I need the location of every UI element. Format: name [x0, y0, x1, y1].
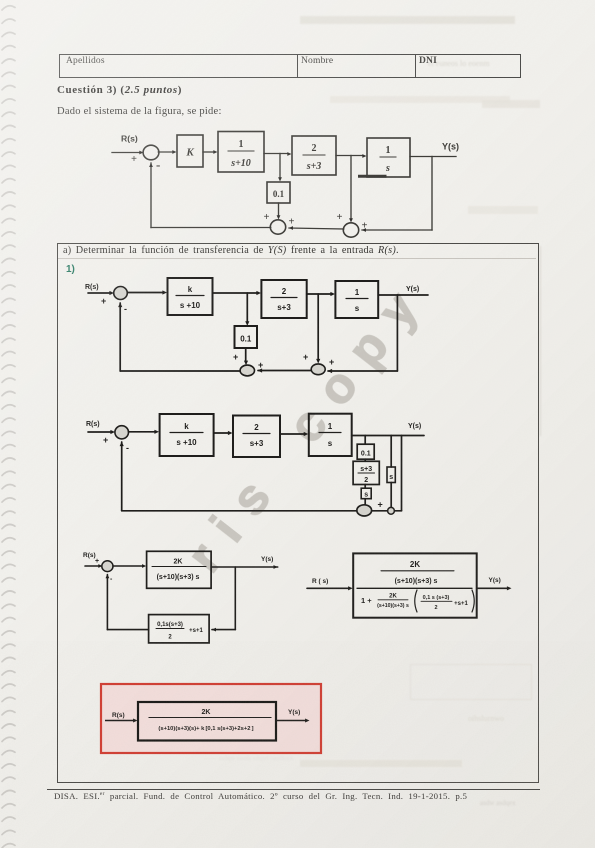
wire (s+3)/2 to block s (hand diagram 2)	[364, 485, 366, 489]
wire sum to forward block (hand diagram 3)	[113, 565, 144, 567]
wire input to sum S1 (hand diagram 1)	[88, 292, 111, 294]
wire node down to 0.1 block (hand diagram 1)	[246, 293, 248, 323]
wire input arrow (red box diagram)	[105, 720, 134, 722]
block s (hand diagram 2)	[361, 488, 371, 499]
summing junction (hand diagram 3)	[102, 561, 113, 572]
summing junction ellipse (hand diagram 2)	[357, 505, 372, 516]
wire sum feedback left and up to S1 (hand diagram 2)	[122, 510, 357, 512]
wire block3 to Y(s) output (hand diagram 1)	[378, 294, 428, 296]
block 2K/((s+10)(s+3)s) (hand diagram 3)	[147, 551, 212, 588]
wire node down to summing junction S3	[350, 156, 352, 220]
block K/(s+10) (hand diagram 2)	[160, 414, 214, 456]
wire block s down to sum (hand diagram 2)	[364, 499, 366, 505]
wire S1 to block K/(s+10) (hand diagram 1)	[127, 292, 164, 294]
feedback block 0.1s(s+3)/2+s+1 (hand diagram 3)	[149, 615, 210, 643]
wire block3 to output with three taps (hand diagram 2)	[352, 435, 424, 437]
block 2/(s+3) (hand diagram 1)	[261, 280, 306, 318]
block K (printed)	[177, 135, 203, 167]
summing junction S1 (hand diagram 1)	[114, 287, 128, 300]
summing junction S2 (printed)	[270, 220, 285, 234]
wire node circle to sum ellipse (hand diagram 2)	[372, 510, 388, 512]
header table	[59, 54, 521, 78]
wire tall block s down to small node circle (hand diagram 2)	[390, 483, 392, 508]
wire input arrow (hand diagram 4)	[307, 587, 349, 589]
wire 0.1 to block (s+3)/2 (hand diagram 2)	[364, 459, 366, 461]
block 1/s (hand diagram 1)	[335, 281, 378, 318]
block (s+3)/2 (hand diagram 2)	[353, 461, 379, 484]
wire G3 to Y(s) output, node branch at x=432	[410, 156, 456, 158]
wire block2 to block3 with node branch (hand diagram 1)	[307, 293, 332, 295]
wire R(s) input to summing junction	[112, 152, 140, 154]
green numbering 1)	[66, 264, 75, 275]
wire rightmost tap down and left into node circle (hand diagram 2)	[401, 436, 403, 511]
summing junction S1 (hand diagram 2)	[115, 426, 129, 439]
wire input to sum (hand diagram 3)	[85, 565, 100, 567]
wire tap down to 0.1 block (hand diagram 2)	[364, 436, 366, 445]
wire block2 to block3 (hand diagram 2)	[280, 433, 305, 435]
heading Cuestion 3	[57, 84, 182, 96]
wire S3 to S2 (hand diagram 1)	[258, 370, 311, 372]
block 2/(s+3) (hand diagram 2)	[233, 416, 280, 458]
wire feedback block left and up to sum (hand diagram 3)	[107, 629, 148, 631]
wire S2 feedback left and up into S1 minus input	[151, 227, 271, 229]
tall block s (hand diagram 2)	[387, 467, 395, 483]
wire output arrow (red box diagram)	[276, 720, 306, 722]
big answer box	[57, 243, 539, 783]
wire S1 to block K	[158, 151, 173, 153]
wire block to Y(s) output with node (hand diagram 3)	[211, 566, 278, 568]
summing junction S1 (printed)	[143, 145, 159, 160]
block closed-loop transfer function (hand diagram 4)	[353, 553, 477, 617]
question a) strip	[63, 245, 399, 256]
wire 0.1 down to sum S2 (hand diagram 1)	[245, 348, 247, 362]
block 1/s (hand diagram 2)	[309, 414, 352, 456]
wire block1 to block2 with node branch (hand diagram 1)	[213, 292, 259, 294]
wire node down to block 0.1	[279, 154, 281, 179]
block H1 = 0.1 (printed)	[267, 182, 290, 203]
wire tap down through tall block s (hand diagram 2)	[390, 436, 392, 468]
intro line	[57, 106, 222, 117]
wire input to sum S1 (hand diagram 2)	[88, 431, 112, 433]
wire S1 to block K/(s+10) (hand diagram 2)	[129, 431, 157, 433]
block K/(s+10) (hand diagram 1)	[168, 278, 213, 315]
watermark "ris copy"	[178, 268, 437, 580]
wire Y(s) feedback down into S3 (hand diagram 1)	[396, 295, 398, 371]
block 0.1 (hand diagram 1)	[235, 326, 258, 348]
wire G2 to block 1/s, node branch at x=351	[336, 155, 363, 157]
block G2 = 2/(s+3) (printed)	[292, 136, 336, 175]
wire K to block 1/(s+10)	[203, 151, 214, 153]
footer rule	[47, 789, 540, 790]
wire node down to sum S3 (hand diagram 1)	[317, 294, 319, 360]
wire block1 to block2 (hand diagram 2)	[214, 432, 230, 434]
summing junction S2 (hand diagram 1)	[240, 365, 254, 376]
spiral binding arcs left edge	[0, 0, 20, 848]
wire S2 feedback left and up to S1 (hand diagram 1)	[120, 370, 240, 372]
wire S3 to S2	[289, 228, 344, 229]
block G3 = 1/s (printed)	[367, 138, 410, 177]
summing junction S3 (hand diagram 1)	[311, 364, 325, 375]
highlight box (red final-answer box)	[101, 684, 321, 753]
summing junction S3 (printed)	[343, 223, 358, 237]
wire node down to feedback block (hand diagram 3)	[234, 567, 236, 630]
ghost bleed-through smudges	[300, 16, 515, 24]
wire block 0.1 down to summing junction S2	[278, 203, 280, 216]
wire Y(s) feedback down and left into S3	[431, 157, 433, 231]
wire output arrow (hand diagram 4)	[477, 587, 508, 589]
block G1 = 1/(s+10) (printed)	[218, 132, 264, 173]
block final transfer function (red box diagram)	[138, 702, 276, 741]
block 0.1 (hand diagram 2)	[357, 444, 374, 459]
node small circle junction (hand diagram 2)	[388, 507, 395, 514]
wire G1 to block 2/(s+3), node branch at x=280	[264, 153, 288, 155]
